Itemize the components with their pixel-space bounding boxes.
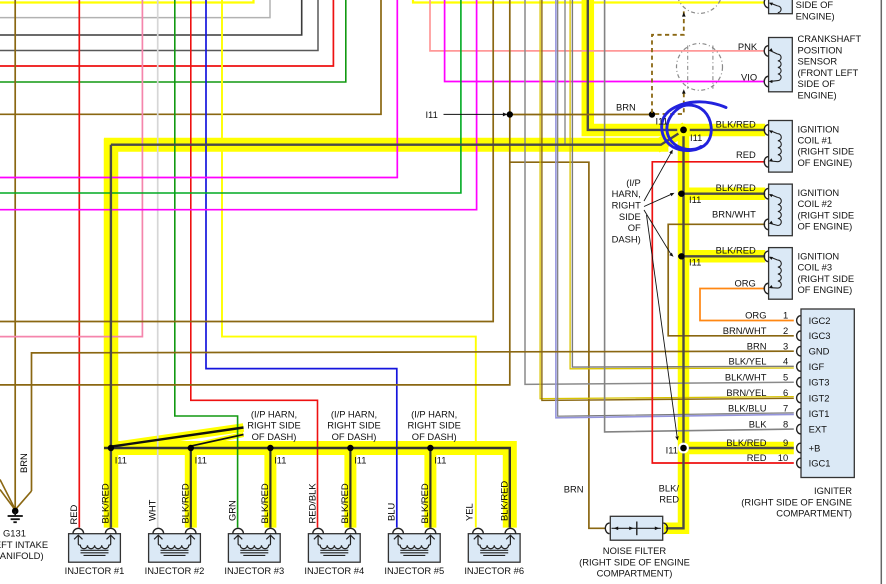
- svg-text:BRN/WHT: BRN/WHT: [723, 325, 767, 336]
- svg-text:ORG: ORG: [734, 278, 755, 289]
- core BLK/RED to igniter pin9: [678, 447, 794, 449]
- ignition coil #2 box U2: [769, 184, 793, 236]
- svg-text:DASH): DASH): [612, 233, 641, 244]
- wire BLK/WHT vertical to igniter pin5: [525, 0, 794, 384]
- svg-text:I11: I11: [115, 455, 127, 466]
- svg-text:COMPARTMENT): COMPARTMENT): [776, 508, 852, 519]
- injector #1 box: [69, 534, 121, 563]
- svg-text:OF DASH): OF DASH): [252, 431, 297, 442]
- svg-text:2: 2: [783, 325, 788, 336]
- svg-text:BRN: BRN: [616, 102, 636, 113]
- svg-text:IGT3: IGT3: [809, 377, 830, 388]
- svg-text:IGT1: IGT1: [809, 408, 830, 419]
- wire gray short vertical x565: [564, 0, 566, 144]
- svg-text:IGNITION: IGNITION: [798, 250, 840, 261]
- wire RED coil1 to igniter pin10: [652, 162, 794, 463]
- core BLK/RED to coil3: [678, 255, 765, 257]
- svg-text:VIO: VIO: [741, 71, 757, 82]
- svg-text:(FRONT LEFT: (FRONT LEFT: [798, 67, 859, 78]
- svg-text:NOISE FILTER: NOISE FILTER: [603, 545, 667, 556]
- noise filter capacitor symbol: [612, 527, 661, 529]
- junction dot coil3: [678, 253, 684, 259]
- svg-text:CRANKSHAFT: CRANKSHAFT: [798, 33, 862, 44]
- svg-text:INJECTOR #5: INJECTOR #5: [384, 565, 444, 576]
- annotation blue pen circle around I11 junction: [662, 102, 726, 151]
- svg-text:BLK/RED: BLK/RED: [726, 437, 766, 448]
- svg-text:RIGHT SIDE: RIGHT SIDE: [407, 420, 460, 431]
- svg-text:POSITION: POSITION: [798, 44, 843, 55]
- highlight band: injector supply bus: [104, 448, 510, 528]
- wire BRN/YEL pair vertical to igniter pin6: [540, 0, 794, 399]
- svg-text:OF: OF: [628, 222, 641, 233]
- core of diagonal wire dot2: [192, 435, 244, 446]
- svg-text:IGC1: IGC1: [809, 457, 831, 468]
- wire WHT vertical injector 2: [157, 0, 159, 528]
- svg-text:I11: I11: [434, 455, 446, 466]
- wire VIO crank sensor from top: [445, 0, 765, 82]
- svg-text:9: 9: [783, 437, 788, 448]
- svg-text:BLK/RED: BLK/RED: [716, 118, 756, 129]
- wire green vertical to left edge y193: [0, 0, 461, 193]
- svg-text:IGT2: IGT2: [809, 392, 830, 403]
- highlight band: to ignition coil 3: [678, 250, 765, 263]
- shield drain dashed brown right: [655, 91, 684, 115]
- svg-text:(RIGHT SIDE OF ENGINE: (RIGHT SIDE OF ENGINE: [579, 557, 690, 568]
- injector #3 box: [228, 534, 280, 563]
- svg-text:I11: I11: [689, 194, 701, 205]
- svg-text:SENSOR: SENSOR: [798, 56, 838, 67]
- wire RED vertical injector 1: [78, 0, 80, 528]
- wire BLK gray vertical to igniter pin8: [605, 0, 794, 432]
- svg-text:(I/P HARN,: (I/P HARN,: [251, 408, 297, 419]
- highlight band: diagonal from bus dot1: [112, 428, 244, 447]
- wire GRN vertical with jog to injector 3: [175, 0, 238, 528]
- wire YEL vertical with jog to injector 6: [222, 0, 476, 528]
- injector #2 coil symbol: [154, 535, 162, 539]
- wire BLU vertical with jog to injector 5: [206, 0, 397, 528]
- svg-text:GRN: GRN: [227, 500, 238, 521]
- shield ellipse camshaft (partial): [677, 0, 723, 13]
- svg-text:YEL: YEL: [464, 503, 475, 521]
- node junction dot x509: [507, 111, 513, 117]
- camshaft sensor box (cut off): [769, 0, 793, 14]
- noise filter box FL1: [610, 516, 662, 540]
- svg-text:OF ENGINE): OF ENGINE): [798, 157, 853, 168]
- svg-text:(I/P HARN,: (I/P HARN,: [411, 408, 457, 419]
- wire ORG coil3 to igniter pin1: [700, 289, 794, 321]
- svg-text:SIDE OF: SIDE OF: [798, 78, 836, 89]
- svg-text:SIDE: SIDE: [619, 211, 641, 222]
- wire black horizontal y35 exiting up: [0, 0, 302, 35]
- svg-text:INJECTOR #6: INJECTOR #6: [464, 565, 524, 576]
- injector #5 box: [388, 534, 440, 563]
- svg-text:INJECTOR #3: INJECTOR #3: [224, 565, 284, 576]
- svg-text:3: 3: [783, 340, 788, 351]
- wire yellow top-left horizontal exiting up: [0, 0, 254, 3]
- injector #6 box: [468, 534, 520, 563]
- svg-text:BLK/RED: BLK/RED: [419, 483, 430, 523]
- svg-text:BRN/WHT: BRN/WHT: [712, 209, 756, 220]
- core BLK of highlighted vertical x587: [588, 0, 681, 130]
- wire BRN GND igniter pin3 to G131: [32, 351, 794, 491]
- wire PNK crank sensor from top: [430, 0, 764, 51]
- svg-text:COIL #1: COIL #1: [798, 135, 833, 146]
- svg-text:IGF: IGF: [809, 361, 825, 372]
- svg-text:(RIGHT SIDE OF ENGINE: (RIGHT SIDE OF ENGINE: [741, 496, 852, 507]
- page border right: [880, 0, 882, 584]
- svg-text:I11: I11: [656, 116, 668, 127]
- svg-text:8: 8: [783, 418, 788, 429]
- pointer to coil3 junction: [644, 210, 671, 254]
- svg-text:(RIGHT SIDE: (RIGHT SIDE: [798, 209, 855, 220]
- cores of injector drops: [190, 448, 192, 528]
- svg-text:BLK/RED: BLK/RED: [259, 483, 270, 523]
- svg-text:EXT: EXT: [809, 424, 828, 435]
- wire dark-gray horizontal y50 exiting up: [0, 0, 318, 51]
- shield drain arrowheads: [682, 89, 686, 93]
- svg-text:BRN: BRN: [564, 484, 584, 495]
- wire magenta vertical to left edge y177: [0, 0, 397, 178]
- shield junction dot x652: [649, 111, 655, 117]
- shield inner verticals: [687, 46, 689, 89]
- wire brown node to shield dot: [510, 114, 652, 116]
- crank sensor coil symbol: [770, 51, 778, 55]
- svg-text:RIGHT SIDE: RIGHT SIDE: [247, 420, 300, 431]
- injector #4 coil symbol: [314, 535, 322, 539]
- svg-text:OF DASH): OF DASH): [412, 431, 457, 442]
- pointer to coil1 wire: [644, 153, 671, 201]
- injector #1 coil symbol: [74, 535, 82, 539]
- svg-text:I11: I11: [689, 256, 701, 267]
- svg-text:BRN/YEL: BRN/YEL: [726, 387, 766, 398]
- junction dot coil2: [678, 191, 684, 197]
- svg-text:(RIGHT SIDE: (RIGHT SIDE: [798, 273, 855, 284]
- injector #3 coil symbol: [234, 535, 242, 539]
- igniter pin connectors: [797, 316, 801, 326]
- wire brown stub to noise-filter drop: [510, 162, 606, 528]
- svg-text:BLK/RED: BLK/RED: [339, 483, 350, 523]
- svg-text:BLK/RED: BLK/RED: [100, 483, 111, 523]
- svg-text:(I/P HARN,: (I/P HARN,: [331, 408, 377, 419]
- svg-text:SIDE OF: SIDE OF: [796, 0, 834, 10]
- svg-text:1: 1: [783, 310, 788, 321]
- svg-text:HARN,: HARN,: [612, 188, 641, 199]
- bus junction dots I11: [108, 445, 114, 451]
- ignition coil #3 box U3: [769, 248, 793, 300]
- svg-text:(RIGHT SIDE: (RIGHT SIDE: [798, 146, 855, 157]
- svg-text:I11: I11: [425, 109, 437, 120]
- svg-text:6: 6: [783, 387, 788, 398]
- ignition coil #1 box U1: [769, 121, 793, 173]
- svg-text:IGC2: IGC2: [809, 315, 831, 326]
- svg-text:BRN: BRN: [18, 453, 29, 473]
- svg-text:BLK: BLK: [749, 418, 767, 429]
- svg-text:I11: I11: [666, 444, 678, 455]
- svg-text:BLK/RED: BLK/RED: [180, 483, 191, 523]
- svg-text:ENGINE): ENGINE): [796, 11, 835, 22]
- injector #6 coil symbol: [474, 535, 482, 539]
- svg-text:IGNITER: IGNITER: [814, 485, 852, 496]
- svg-text:IGNITION: IGNITION: [798, 187, 840, 198]
- svg-text:INJECTOR #2: INJECTOR #2: [145, 565, 205, 576]
- wire green horizontal y82 exiting up: [0, 0, 346, 82]
- wire RED/BLK vertical with jog to injector 4: [191, 0, 318, 528]
- svg-text:INJECTOR #4: INJECTOR #4: [304, 565, 364, 576]
- highlight band: to ignition coil 1: [684, 124, 766, 137]
- svg-text:10: 10: [778, 452, 788, 463]
- crankshaft position sensor box: [769, 38, 793, 92]
- highlight band: bus B horizontal y145: [104, 138, 668, 152]
- svg-text:BLK/RED: BLK/RED: [716, 182, 756, 193]
- shield drain dashed brown left: [652, 11, 684, 113]
- junction I11 igniter ring: [678, 443, 689, 454]
- highlight band: to igniter +B pin9: [678, 442, 794, 455]
- wire magenta vertical to left edge y209: [0, 0, 477, 210]
- svg-text:5: 5: [783, 372, 788, 383]
- camshaft sensor coil symbol (cut): [770, 3, 777, 6]
- wire BRN/WHT coil2 to igniter pin2: [668, 224, 794, 335]
- svg-text:PNK: PNK: [738, 41, 758, 52]
- svg-text:RED: RED: [736, 149, 756, 160]
- svg-text:BRN: BRN: [747, 340, 767, 351]
- highlight band: BLK vertical from top x587: [588, 0, 684, 130]
- svg-text:COMPARTMENT): COMPARTMENT): [597, 568, 673, 579]
- highlight band: corner x111 vertical: [104, 139, 119, 528]
- wire brown vertical to left edge y321: [0, 0, 493, 322]
- injector #5 coil symbol: [394, 535, 402, 539]
- svg-text:INJECTOR #1: INJECTOR #1: [65, 565, 125, 576]
- svg-text:COIL #3: COIL #3: [798, 262, 833, 273]
- shield ellipse crankshaft: [677, 44, 723, 91]
- pointer to coil2 junction: [644, 194, 672, 206]
- svg-text:OF ENGINE): OF ENGINE): [798, 284, 853, 295]
- highlight band: BLK/RED vertical x683 to noise filter: [664, 128, 684, 528]
- svg-text:ENGINE): ENGINE): [798, 89, 837, 100]
- wire red horizontal y66 exiting up: [0, 0, 333, 66]
- wire brown vertical through node I11 to left edge y385: [0, 0, 510, 385]
- svg-text:BLK/WHT: BLK/WHT: [725, 372, 767, 383]
- svg-text:RED: RED: [68, 504, 79, 524]
- injector #2 box: [149, 534, 201, 563]
- svg-text:IGNITION: IGNITION: [798, 123, 840, 134]
- highlight bands: injector drops: [185, 448, 197, 528]
- svg-text:BLK/YEL: BLK/YEL: [728, 356, 766, 367]
- svg-text:IGC3: IGC3: [809, 330, 831, 341]
- highlight band: to ignition coil 2: [678, 187, 765, 200]
- G131 ground fan wires: [15, 491, 31, 510]
- wire yellow top jog to camshaft sensor: [413, 0, 764, 3]
- svg-text:OF DASH): OF DASH): [332, 431, 377, 442]
- ground G131 symbol: [12, 508, 19, 515]
- svg-text:RIGHT SIDE: RIGHT SIDE: [327, 420, 380, 431]
- svg-text:I11: I11: [195, 455, 207, 466]
- svg-text:I11: I11: [274, 455, 286, 466]
- core BLK of bus B horizontal y145 + diagonal into junction: [111, 131, 682, 144]
- svg-text:RED/BLK: RED/BLK: [306, 483, 317, 524]
- svg-text:WHT: WHT: [147, 499, 158, 521]
- pointer to igniter I11 junction: [647, 215, 678, 436]
- wire PNK vertical with corner to left edge: [0, 0, 142, 337]
- junction I11 igniter dot: [680, 445, 687, 452]
- wire brown vertical to G131: [14, 0, 16, 509]
- svg-text:(LEFT INTAKE: (LEFT INTAKE: [0, 539, 48, 550]
- svg-text:RED: RED: [659, 493, 679, 504]
- svg-text:(I/P: (I/P: [626, 177, 641, 188]
- svg-text:RED: RED: [747, 452, 767, 463]
- junction I11 halo coil1: [677, 124, 690, 137]
- highlight band: diagonal from bus dot2: [192, 435, 244, 446]
- svg-text:I11: I11: [690, 132, 702, 143]
- svg-text:BLK/RED: BLK/RED: [499, 481, 510, 521]
- svg-text:MANIFOLD): MANIFOLD): [0, 550, 44, 561]
- svg-text:OF ENGINE): OF ENGINE): [798, 221, 853, 232]
- junction I11 dot coil1: [680, 126, 687, 133]
- core of diagonal wire dot1: [112, 428, 244, 447]
- svg-text:COIL #2: COIL #2: [798, 198, 833, 209]
- svg-text:ORG: ORG: [745, 310, 766, 321]
- core of vertical x683 down to noise filter: [666, 129, 684, 528]
- igniter box U4: [801, 309, 854, 478]
- core BLK/RED to coil2: [678, 192, 765, 194]
- wire gray horizontal y17 exiting up: [0, 0, 270, 18]
- svg-text:BLK/RED: BLK/RED: [716, 244, 756, 255]
- wire brown horizontal y114 exiting up: [0, 0, 381, 114]
- svg-text:GND: GND: [809, 346, 830, 357]
- svg-text:G131: G131: [3, 527, 26, 538]
- svg-text:BLU: BLU: [386, 503, 397, 521]
- svg-text:RIGHT: RIGHT: [612, 200, 641, 211]
- svg-text:+B: +B: [809, 442, 821, 453]
- core of vertical x111 to injector1: [110, 145, 112, 528]
- svg-text:7: 7: [783, 403, 788, 414]
- svg-text:BLK/: BLK/: [659, 483, 680, 494]
- core BLK/RED to coil1: [684, 129, 766, 131]
- injector #4 box: [308, 534, 360, 563]
- svg-text:4: 4: [783, 356, 788, 367]
- core of injector bus: [104, 448, 510, 528]
- wire BLK/YEL pair vertical to igniter pin4: [570, 0, 794, 369]
- I11 reference arrow to node: [444, 113, 505, 115]
- svg-text:I11: I11: [354, 455, 366, 466]
- wire BLK/BLU pair vertical to igniter pin7: [556, 0, 794, 418]
- svg-text:BLK/BLU: BLK/BLU: [728, 403, 767, 414]
